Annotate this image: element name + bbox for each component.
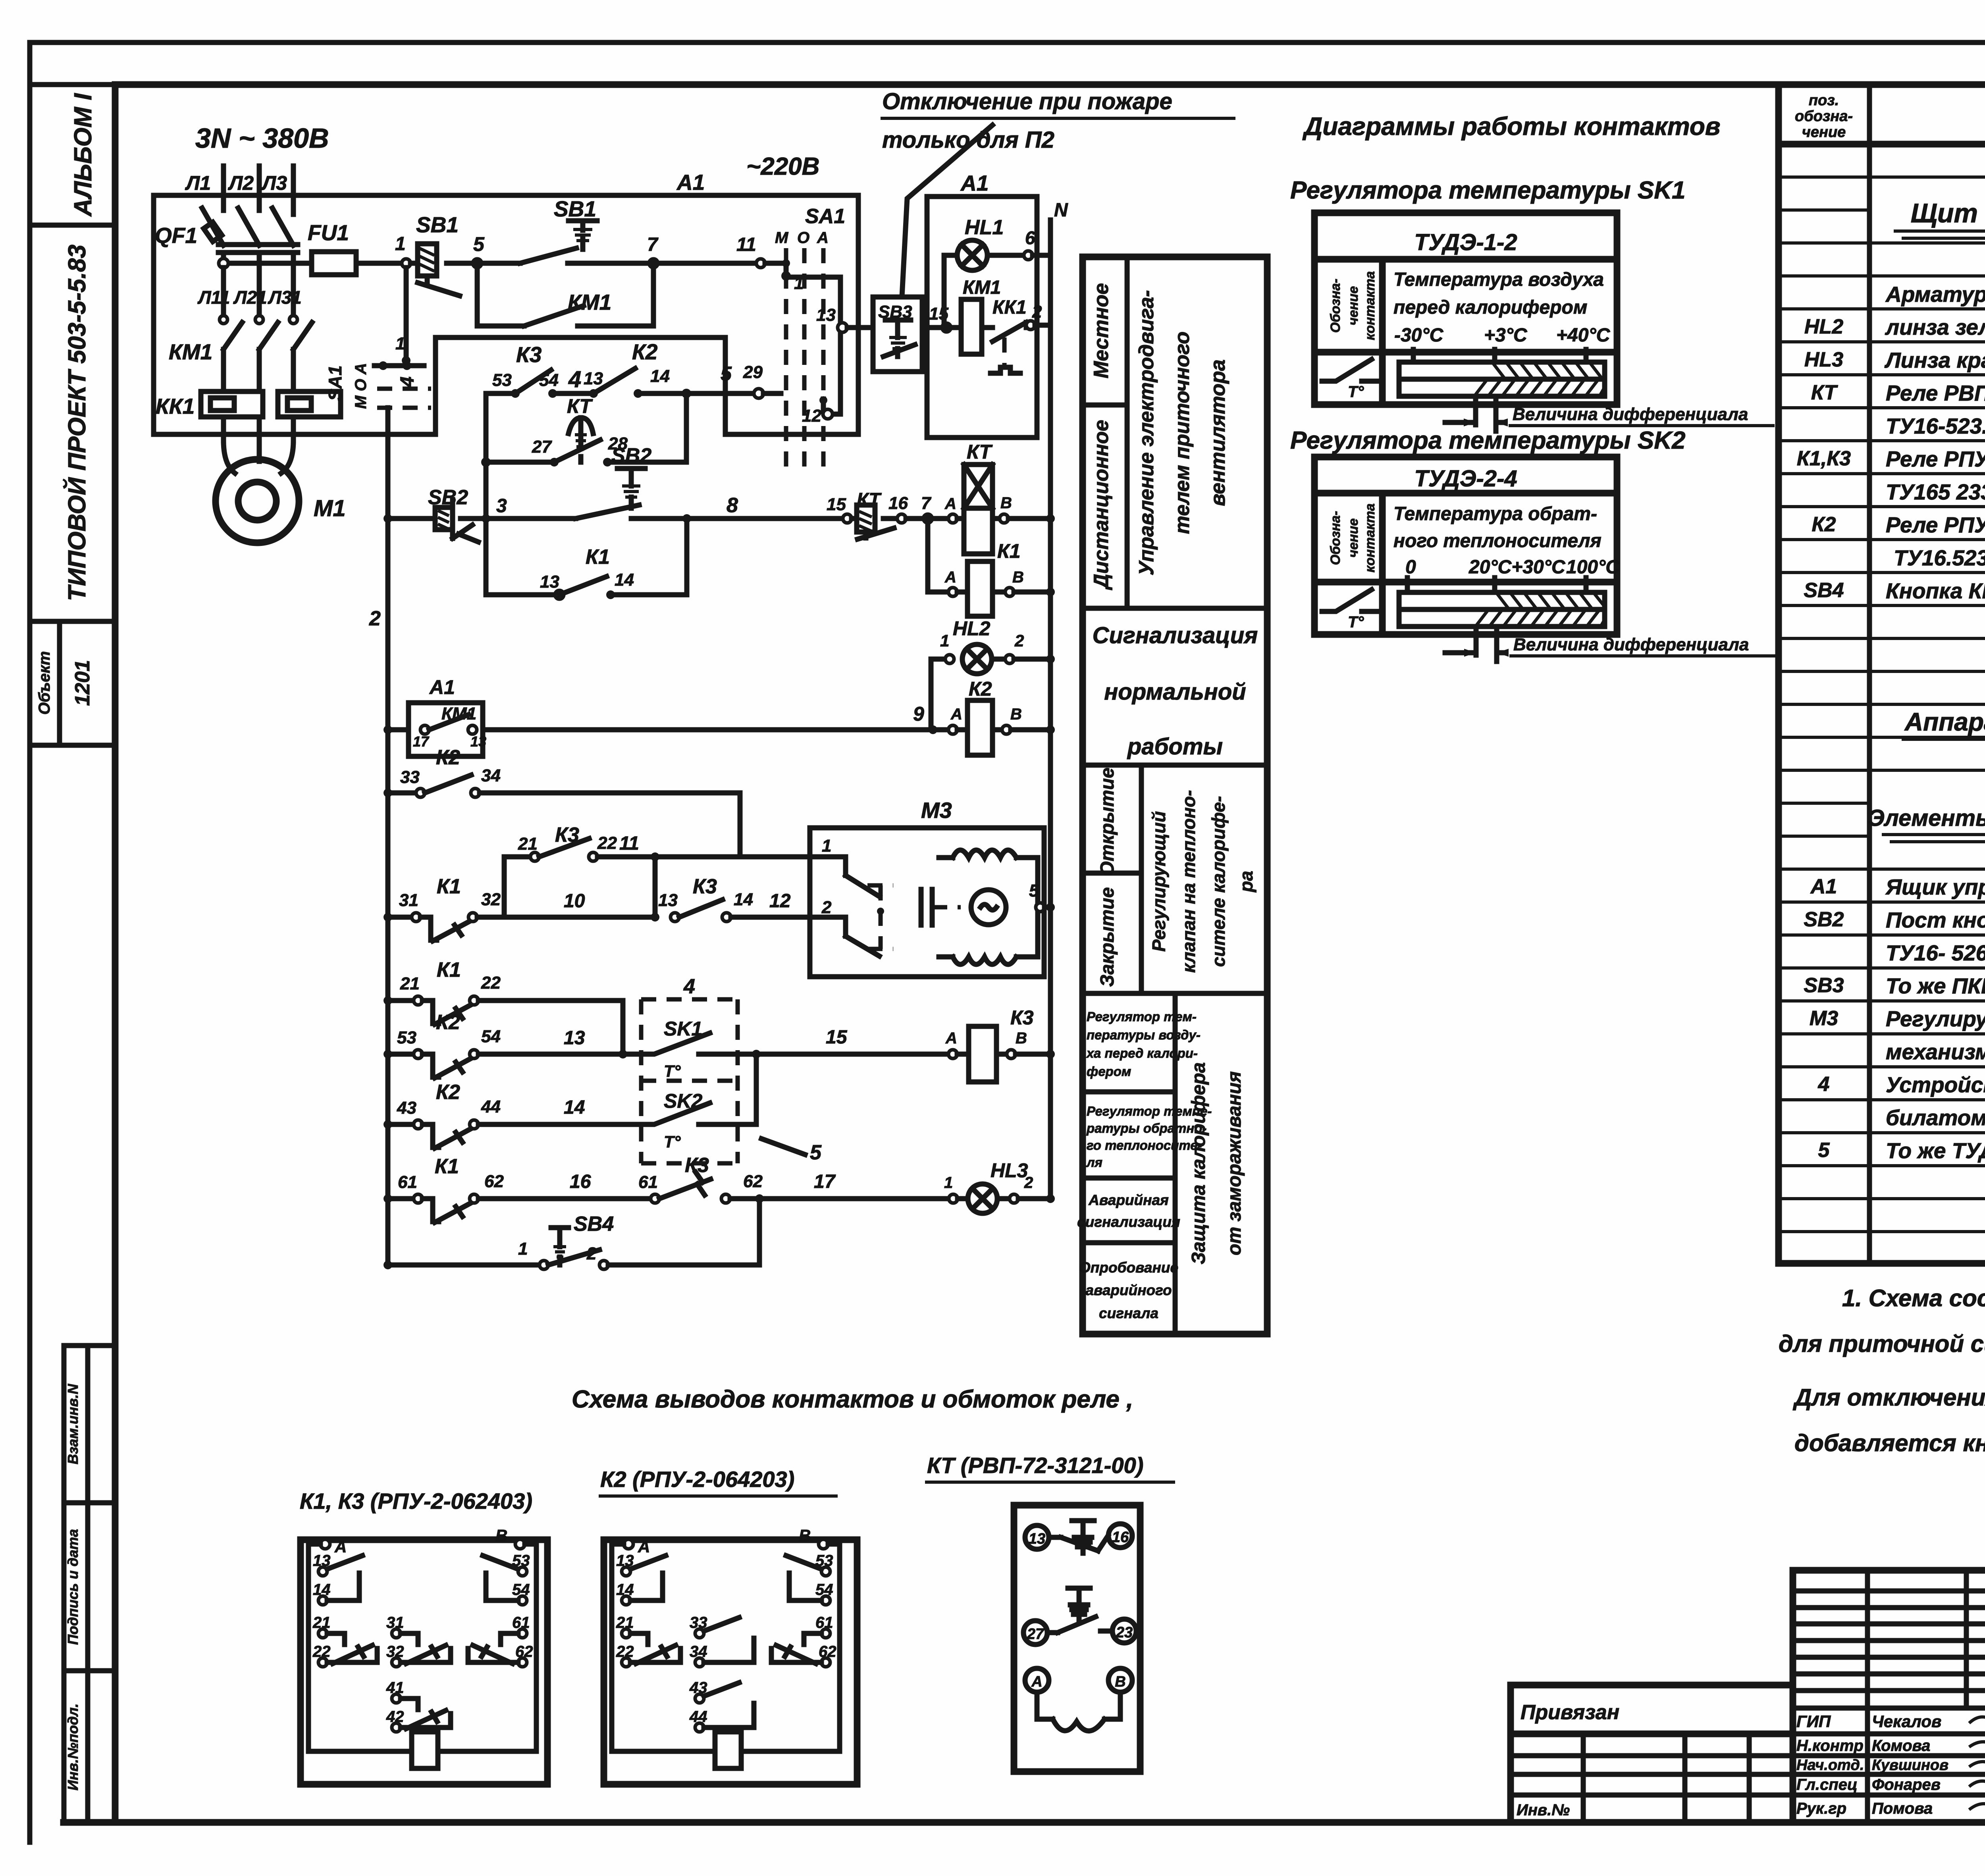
node 7 row1306 <box>906 494 932 523</box>
svg-text:+40°С: +40°С <box>1556 325 1611 346</box>
svg-text:Инв.№: Инв.№ <box>1517 1801 1570 1819</box>
svg-text:12: 12 <box>802 406 821 426</box>
node 6 <box>1024 228 1050 260</box>
svg-text:27: 27 <box>1027 1626 1045 1643</box>
svg-text:ха перед калори-: ха перед калори- <box>1086 1046 1198 1060</box>
row SB3 <box>1804 974 1985 998</box>
relay box К2 <box>604 1540 857 1784</box>
thermostat box 4/5 dashed <box>641 975 738 1163</box>
svg-text:Рук.гр: Рук.гр <box>1796 1800 1846 1817</box>
svg-text:К3: К3 <box>693 875 717 898</box>
svg-text:вентилятора: вентилятора <box>1206 359 1230 506</box>
svg-text:М: М <box>775 229 789 247</box>
svg-text:4: 4 <box>1818 1073 1830 1096</box>
svg-text:5: 5 <box>810 1141 822 1164</box>
svg-text:2: 2 <box>369 607 381 630</box>
svg-text:3N ~ 380В: 3N ~ 380В <box>195 123 329 154</box>
svg-text:ного теплоносителя: ного теплоносителя <box>1393 530 1601 551</box>
К1К3 terminal В <box>495 1526 536 1751</box>
svg-text:Помова: Помова <box>1872 1800 1933 1817</box>
cell Регулятор температуры обратного <box>1083 1104 1212 1178</box>
cell Регулятор температуры воздуха <box>1083 1009 1201 1092</box>
lamp HL1 <box>944 216 1024 328</box>
svg-text:2: 2 <box>1024 1174 1033 1192</box>
left band cell объект/1201 <box>30 621 115 745</box>
node 29 wire into SA1 box <box>721 362 781 398</box>
svg-text:4: 4 <box>397 376 418 388</box>
svg-text:билатометрическое ТУДЭ-1-2-П1В: билатометрическое ТУДЭ-1-2-П1В2 <box>1886 1105 1985 1130</box>
svg-text:М3: М3 <box>921 798 952 823</box>
node В К3 coil <box>996 1030 1055 1059</box>
SK1 differential arrows <box>1445 396 1508 431</box>
svg-text:ра: ра <box>1236 871 1257 893</box>
svg-text:нормальной: нормальной <box>1104 679 1246 705</box>
SK1 header ТУДЭ-1-2 <box>1414 229 1517 255</box>
svg-text:SB3: SB3 <box>1804 974 1844 997</box>
svg-text:работы: работы <box>1127 734 1223 760</box>
lamp HL3 <box>944 1159 1055 1213</box>
N rail ladder <box>1048 659 1053 1199</box>
svg-text:~220В: ~220В <box>746 153 819 180</box>
svg-text:Взам.инв.N: Взам.инв.N <box>65 1384 81 1465</box>
contactor coil КМ1 <box>946 277 1001 354</box>
cell Управление электродвигателем <box>1135 290 1230 576</box>
svg-text:+3°С: +3°С <box>1484 325 1528 346</box>
svg-text:А1: А1 <box>1810 875 1837 898</box>
svg-text:К2: К2 <box>436 746 460 769</box>
row 5 то же <box>1818 1138 1985 1163</box>
row К1 21-22 <box>384 958 623 1054</box>
svg-text:Гл.спец: Гл.спец <box>1796 1776 1858 1793</box>
svg-text:54: 54 <box>481 1027 501 1046</box>
svg-text:Н.контр: Н.контр <box>1796 1737 1864 1755</box>
М3 capacitor <box>921 889 961 925</box>
svg-text:Закрытие: Закрытие <box>1097 887 1118 987</box>
svg-text:А: А <box>944 569 956 586</box>
svg-text:Открытие: Открытие <box>1097 767 1118 876</box>
svg-text:Дистанционное: Дистанционное <box>1090 420 1113 590</box>
switch SA1 left dashed rows <box>377 389 431 408</box>
row Арматура <box>1885 282 1985 307</box>
svg-text:13: 13 <box>1029 1531 1045 1547</box>
svg-text:А1: А1 <box>960 171 989 195</box>
svg-text:Аварийная: Аварийная <box>1088 1192 1169 1208</box>
svg-text:ТУДЭ-1-2: ТУДЭ-1-2 <box>1414 229 1517 255</box>
svg-text:SB4: SB4 <box>574 1213 614 1236</box>
row К3 61-62 delay <box>638 1154 949 1203</box>
row К3 21-22 branch <box>504 823 810 917</box>
node 1 <box>395 233 410 268</box>
svg-text:53: 53 <box>397 1028 416 1047</box>
svg-text:М3: М3 <box>1810 1007 1838 1030</box>
svg-text:К1: К1 <box>437 958 461 981</box>
svg-text:Кнопка КЕ-011У3 исп.2 ТУ16.526: Кнопка КЕ-011У3 исп.2 ТУ16.526.407-76 <box>1886 578 1985 603</box>
cell Дистанционное <box>1083 420 1267 608</box>
left stamp band: album cell divider <box>30 85 115 225</box>
svg-text:29: 29 <box>743 362 763 382</box>
row К1 31-32 <box>384 875 651 941</box>
svg-text:контакта: контакта <box>1363 271 1378 340</box>
left band text ТИПОВОЙ ПРОЕКТ 503-5-5.83 <box>63 245 91 601</box>
frame bottom edge <box>64 1819 1985 1826</box>
svg-text:Диаграммы работы контактов: Диаграммы работы контактов <box>1302 112 1721 141</box>
subcircuit left leg <box>481 393 491 519</box>
node 16 <box>888 494 908 523</box>
row К2 43-44 <box>384 1081 641 1148</box>
svg-text:53: 53 <box>492 370 512 390</box>
svg-text:пературы возду-: пературы возду- <box>1087 1028 1201 1042</box>
relay box КТ <box>1014 1505 1140 1772</box>
svg-text:Реле РВП72-3121-00УЧ 220/50: Реле РВП72-3121-00УЧ 220/50 <box>1886 381 1985 405</box>
heading Схема выводов контактов и обмоток реле <box>572 1386 1133 1413</box>
row К1 61-62 <box>384 1155 651 1222</box>
relay box К1 К3 <box>301 1540 547 1784</box>
svg-text:2: 2 <box>1032 302 1042 322</box>
wire SK1 to К3 coil <box>738 1027 948 1054</box>
svg-text:ТИПОВОЙ ПРОЕКТ 503-5-5.83: ТИПОВОЙ ПРОЕКТ 503-5-5.83 <box>63 245 91 601</box>
svg-text:К3: К3 <box>1010 1006 1034 1029</box>
svg-text:КМ1: КМ1 <box>169 339 212 364</box>
lamp HL2 branch <box>931 617 1055 730</box>
SA1 left contact row 4 <box>374 268 424 388</box>
switch SA1 left labels <box>325 363 370 409</box>
svg-text:Регулирующий клапан с исполнит: Регулирующий клапан с исполнительным <box>1886 1006 1985 1031</box>
left band text Взам.инв.N <box>65 1384 81 1465</box>
svg-text:8: 8 <box>727 494 738 517</box>
svg-text:11: 11 <box>736 234 756 255</box>
svg-text:ТУДЭ-2-4: ТУДЭ-2-4 <box>1414 466 1517 492</box>
КТ middle contact 27-28 <box>1023 1588 1136 1645</box>
SK2 bar <box>1399 592 1605 627</box>
svg-text:клапан на теплоно-: клапан на теплоно- <box>1178 790 1199 973</box>
svg-text:5: 5 <box>1818 1139 1830 1162</box>
svg-text:13: 13 <box>584 369 603 388</box>
svg-text:17: 17 <box>814 1171 836 1192</box>
svg-text:FU1: FU1 <box>308 220 349 245</box>
svg-text:сигнализация: сигнализация <box>1077 1214 1180 1230</box>
svg-text:В: В <box>1016 1030 1027 1047</box>
привязан block <box>1511 1685 1793 1822</box>
svg-text:1: 1 <box>395 233 406 255</box>
svg-text:Линза красная: Линза красная <box>1884 348 1985 372</box>
svg-text:К1: К1 <box>586 546 610 569</box>
control box А1 <box>927 171 1037 438</box>
svg-text:Элементы управления электрод: Элементы управления электродвигателем <box>1868 805 1985 831</box>
node А К3 coil <box>945 1030 957 1059</box>
svg-text:А: А <box>817 229 829 247</box>
svg-text:Объект: Объект <box>36 651 53 715</box>
svg-text:Т°: Т° <box>664 1062 681 1080</box>
node А КТ coil <box>932 495 957 523</box>
title block outer <box>1793 1570 1985 1822</box>
power box А1 outline <box>154 195 858 434</box>
svg-text:К1: К1 <box>997 540 1021 562</box>
node А К2 coil <box>948 706 962 734</box>
svg-text:HL2: HL2 <box>953 617 991 640</box>
wire SA1 box step <box>0 0 0 0</box>
row SB2: rail node <box>384 514 426 523</box>
SK1 table frame <box>1314 213 1617 405</box>
node 3 <box>482 496 507 523</box>
bottom section divider <box>1173 993 1178 1334</box>
svg-text:А: А <box>950 706 962 723</box>
wire node7 to node11 <box>653 261 761 266</box>
К1К3 coil <box>308 1732 536 1768</box>
wire node13 to SB3 <box>847 325 873 330</box>
cell Местное <box>1083 283 1127 405</box>
svg-text:16: 16 <box>570 1171 591 1192</box>
title block signature rows <box>1793 1734 1985 1795</box>
svg-text:-30°С: -30°С <box>1394 325 1444 346</box>
svg-text:SB1: SB1 <box>554 197 596 221</box>
row ТУ165 <box>1886 480 1985 504</box>
svg-text:А: А <box>334 1537 347 1556</box>
svg-text:К1,К3: К1,К3 <box>1797 447 1851 470</box>
SK2 header ТУДЭ-2-4 <box>1414 466 1517 492</box>
label 5 thermostat <box>761 1139 822 1164</box>
row 4 устройство <box>1818 1072 1985 1101</box>
svg-text:Привязан: Привязан <box>1521 1701 1619 1724</box>
КТ pins 13 16 <box>1025 1521 1132 1553</box>
function column divider vertical top <box>1125 257 1130 608</box>
parts table outer border <box>1779 86 1985 1263</box>
svg-text:обозна-: обозна- <box>1795 108 1853 125</box>
note line 1 <box>1842 1285 1985 1311</box>
left band bottom cells grid <box>64 1346 115 1822</box>
svg-text:QF1: QF1 <box>155 223 197 248</box>
label ~220В <box>746 153 819 180</box>
svg-text:2: 2 <box>1014 631 1024 650</box>
row К1,К3 <box>1797 447 1985 471</box>
time relay coil КТ <box>957 441 993 554</box>
pushbutton SB1 start <box>477 197 653 263</box>
parts table column lines <box>1869 86 1985 1263</box>
svg-text:5: 5 <box>1029 881 1039 900</box>
label КТ РВП-72-3121-00 <box>925 1453 1175 1482</box>
svg-text:100°С: 100°С <box>1566 557 1620 578</box>
svg-text:Сигнализация: Сигнализация <box>1093 623 1258 648</box>
svg-text:КТ (РВП-72-3121-00): КТ (РВП-72-3121-00) <box>927 1453 1143 1478</box>
svg-text:22: 22 <box>597 833 617 853</box>
valve actuator М3 box <box>810 798 1044 977</box>
row ТУ16-523.472-74 <box>1886 414 1985 438</box>
svg-text:ТУ16- 526.216-77: ТУ16- 526.216-77 <box>1886 941 1985 965</box>
SK1 bar hatch lower <box>1475 380 1605 395</box>
SK2 обозначение контакта <box>1328 503 1378 573</box>
svg-text:1: 1 <box>944 1174 953 1192</box>
svg-text:Для отключения вентилятора П2: Для отключения вентилятора П2 при пожаре <box>1792 1384 1985 1411</box>
signature row Рук.гр Помова <box>1796 1800 1985 1817</box>
svg-text:К3: К3 <box>516 342 542 367</box>
svg-text:К2: К2 <box>436 1011 460 1034</box>
svg-text:К2: К2 <box>632 339 658 364</box>
thermostat contact SK1 <box>641 1018 738 1080</box>
thermostat contact SK2 <box>641 1090 738 1151</box>
К2 contact 21-22 <box>616 1614 680 1667</box>
cell Регулирующий клапан <box>1083 790 1267 993</box>
svg-text:9: 9 <box>913 703 924 725</box>
row К2 <box>1812 513 1985 537</box>
node 8 junction <box>682 494 843 523</box>
row билатометрическое <box>1886 1105 1985 1134</box>
label К1 К3 РПУ-2-062403 <box>300 1488 532 1514</box>
К1К3 contact 41-42 <box>386 1679 451 1732</box>
title block revision grid <box>1793 1570 1985 1822</box>
signature row Нач.отд Кувшинов <box>1796 1757 1985 1774</box>
svg-text:Регулирующий: Регулирующий <box>1149 811 1169 952</box>
svg-text:Величина дифференциала: Величина дифференциала <box>1513 635 1749 654</box>
svg-text:HL3: HL3 <box>991 1159 1028 1182</box>
svg-text:33: 33 <box>400 767 420 787</box>
contactor KM1 main contacts <box>169 268 312 391</box>
function column outer box <box>1083 257 1267 1334</box>
text Отключение при пожаре <box>881 89 1235 153</box>
svg-text:Регулятора температуры SK2: Регулятора температуры SK2 <box>1290 427 1686 454</box>
svg-text:N: N <box>1054 200 1068 221</box>
svg-text:КТ: КТ <box>567 395 593 417</box>
К2 terminal А <box>612 1537 650 1751</box>
motor M1 <box>216 441 346 543</box>
svg-text:SB2: SB2 <box>1804 908 1844 931</box>
SK2 bar hatch lower <box>1476 610 1605 626</box>
table heading Аппаратура по месту <box>1902 708 1985 739</box>
svg-text:1. Схема составлена для приточ: 1. Схема составлена для приточной систем… <box>1842 1285 1985 1311</box>
thermal contact КК1 <box>982 297 1050 373</box>
wire КМ1 row to К2 coil <box>483 703 948 734</box>
svg-text:ТУ165 23331-71: ТУ165 23331-71 <box>1886 480 1985 504</box>
svg-text:HL2: HL2 <box>1804 315 1843 338</box>
cell Аварийная сигнализация <box>1077 1192 1180 1243</box>
svg-text:1: 1 <box>518 1239 528 1259</box>
svg-text:Л1: Л1 <box>185 172 211 194</box>
К2 contact 13-14 <box>616 1552 666 1605</box>
heading Регулятора температуры SK1 <box>1290 177 1686 204</box>
svg-text:2: 2 <box>821 898 832 917</box>
pushbutton SB2 stop <box>426 486 482 542</box>
svg-text:Обозна-: Обозна- <box>1328 511 1343 565</box>
left band text 1201 <box>71 660 94 706</box>
К2 contact 53-54 <box>786 1552 833 1605</box>
svg-text:0: 0 <box>1405 557 1416 578</box>
left band text Подпись и дата <box>65 1529 81 1645</box>
fuse FU1 <box>308 220 402 275</box>
svg-text:27: 27 <box>532 437 552 457</box>
svg-text:О: О <box>797 229 809 247</box>
svg-text:Реле РПУ-2-0624.03 ~220В: Реле РПУ-2-0624.03 ~220В <box>1886 447 1985 471</box>
svg-text:16: 16 <box>888 494 908 513</box>
svg-text:перед калорифером: перед калорифером <box>1393 297 1587 318</box>
svg-text:добавляется кнопка SB3: добавляется кнопка SB3 <box>1794 1430 1985 1456</box>
node В К1 coil <box>992 569 1055 596</box>
phase line Л1 <box>221 166 226 210</box>
SK2 contact symbol <box>1322 590 1378 631</box>
svg-text:К2: К2 <box>436 1081 460 1104</box>
svg-text:ГИП: ГИП <box>1796 1712 1831 1731</box>
svg-text:13: 13 <box>564 1028 585 1049</box>
svg-text:Аппаратура по месту: Аппаратура по месту <box>1904 708 1985 736</box>
cell Защита калорифера от замораживания <box>1188 1062 1245 1264</box>
SA1 right М contact <box>765 259 804 293</box>
note line 4 <box>1794 1430 1985 1456</box>
svg-text:КТ: КТ <box>967 441 993 463</box>
К2 terminal В <box>799 1526 840 1751</box>
svg-text:17: 17 <box>413 733 430 750</box>
svg-text:1201: 1201 <box>71 660 94 706</box>
svg-text:2: 2 <box>586 1244 597 1263</box>
svg-text:Величина дифференциала: Величина дифференциала <box>1513 405 1748 424</box>
phase line Л3 <box>291 166 296 214</box>
svg-text:1: 1 <box>940 631 949 650</box>
svg-text:Нач.отд.: Нач.отд. <box>1796 1757 1864 1774</box>
row SB2 пост кнопочный <box>1804 908 1985 932</box>
node 11 <box>736 234 765 268</box>
cell Закрытие <box>1097 887 1118 987</box>
svg-text:Т°: Т° <box>1348 383 1364 401</box>
svg-text:чение: чение <box>1346 519 1361 558</box>
row ТУ16-526.216-77 <box>1886 941 1985 965</box>
relay contact К3 53-54 <box>486 342 594 398</box>
svg-text:Подпись и дата: Подпись и дата <box>65 1529 81 1645</box>
svg-text:61: 61 <box>638 1172 658 1192</box>
svg-text:Опробование: Опробование <box>1079 1259 1178 1276</box>
svg-text:Ящик управления: Ящик управления <box>1885 875 1985 899</box>
svg-text:14: 14 <box>564 1097 585 1118</box>
parts table header row line <box>1779 141 1985 148</box>
svg-text:Л3: Л3 <box>261 172 287 194</box>
SA1 right bracket wire <box>786 277 847 414</box>
node 15 control <box>929 304 951 332</box>
aux contact box А1 КМ1 <box>409 676 486 756</box>
svg-text:SA1: SA1 <box>325 365 345 401</box>
svg-text:44: 44 <box>481 1097 501 1116</box>
svg-text:15: 15 <box>827 495 846 514</box>
svg-text:21: 21 <box>400 974 420 993</box>
table heading Щит автоматизации П1(П2) <box>1894 198 1985 238</box>
svg-text:В: В <box>1010 706 1022 723</box>
svg-text:43: 43 <box>397 1098 416 1118</box>
SK2 differential arrows <box>1445 627 1509 661</box>
SK2 bar hatch upper <box>1497 593 1605 609</box>
row SB4 <box>1804 575 1985 607</box>
svg-text:4: 4 <box>568 366 581 392</box>
note line 2 <box>1779 1330 1985 1357</box>
left band text АЛЬБОМ I <box>69 93 97 217</box>
М3 motor <box>971 890 1006 925</box>
svg-text:13: 13 <box>658 891 678 910</box>
svg-text:20°С+30°С: 20°С+30°С <box>1469 557 1566 578</box>
phase labels Л1 Л2 Л3 <box>185 172 287 194</box>
signature row ГИП Чекалов <box>1796 1712 1985 1731</box>
svg-text:4: 4 <box>683 975 695 998</box>
node В К2 coil <box>992 706 1055 734</box>
svg-text:13: 13 <box>816 305 836 325</box>
pushbutton SB2 start <box>486 444 687 519</box>
svg-text:линза зеленая: линза зеленая <box>1885 315 1985 339</box>
table heading Элементы управления электродвигателем <box>1868 805 1985 842</box>
svg-text:для приточной системы П2: для приточной системы П2 <box>1779 1330 1985 1357</box>
wire SK2 up to row15 <box>738 1050 761 1124</box>
left rail wire 2 <box>369 408 388 1265</box>
К2 contact 43-44 <box>689 1679 754 1732</box>
pushbutton SB1 stop <box>410 212 460 296</box>
svg-text:А1: А1 <box>676 170 705 195</box>
svg-text:Схема выводов контактов и обм: Схема выводов контактов и обмоток реле , <box>572 1386 1133 1413</box>
signature row Гл.спец Фонарев <box>1796 1776 1985 1793</box>
svg-text:А1: А1 <box>429 676 455 698</box>
svg-text:АЛЬБОМ I: АЛЬБОМ I <box>69 93 97 217</box>
svg-text:Л21: Л21 <box>233 287 267 308</box>
svg-text:ля: ля <box>1086 1155 1102 1170</box>
